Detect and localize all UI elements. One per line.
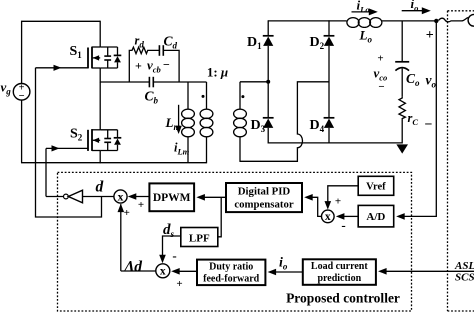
wire Vref to X3 — [328, 186, 358, 203]
ground arrow — [396, 144, 408, 153]
svg-text:D1: D1 — [247, 35, 262, 51]
node output junction — [434, 19, 438, 23]
svg-text:+: + — [135, 59, 142, 73]
svg-text:+: + — [138, 199, 144, 211]
wire ASL input — [384, 270, 474, 272]
capacitor C_b — [148, 77, 150, 88]
transistor S1 — [36, 67, 89, 69]
svg-text:A/D: A/D — [366, 211, 385, 223]
wire v_o sense rail — [404, 21, 436, 217]
svg-text:-: - — [341, 218, 345, 233]
svg-text:io: io — [279, 256, 288, 272]
svg-text:SCS: SCS — [455, 272, 474, 284]
wire delta-d — [121, 270, 156, 272]
svg-text:S1: S1 — [70, 44, 83, 60]
svg-text:compensator: compensator — [234, 199, 294, 211]
gate U2 inverter — [46, 196, 64, 198]
svg-text:-: - — [172, 248, 176, 263]
wire output top rail — [268, 20, 346, 22]
svg-text:−: − — [425, 118, 433, 133]
wire midpoint rail — [100, 81, 149, 83]
source v_g — [13, 84, 30, 101]
wire v_g to S1 drain top rail — [22, 21, 101, 83]
svg-text:+: + — [426, 28, 434, 43]
svg-text:+: + — [124, 207, 130, 219]
svg-text:feed-forward: feed-forward — [203, 274, 260, 285]
svg-text:Cb: Cb — [145, 89, 159, 106]
transformer secondary — [239, 82, 241, 110]
svg-text:D2: D2 — [310, 35, 325, 51]
diode D2 — [324, 35, 335, 37]
svg-text:−: − — [163, 58, 170, 72]
svg-text:D3: D3 — [251, 118, 266, 134]
summer X3 error — [322, 210, 335, 223]
svg-text:Duty ratio: Duty ratio — [209, 262, 253, 273]
load current source — [468, 14, 474, 26]
inductor L_o — [347, 18, 359, 28]
wire S1 gate drive — [36, 68, 102, 217]
label i_o arrow — [402, 10, 424, 12]
svg-text:Lo: Lo — [359, 28, 373, 45]
transformer primary — [206, 82, 208, 110]
block Vref — [358, 176, 394, 195]
svg-text:Proposed controller: Proposed controller — [286, 291, 400, 306]
wire AD to X3 — [344, 215, 359, 217]
svg-text:rd: rd — [135, 34, 145, 50]
block duty ratio feed-forward — [197, 260, 265, 286]
svg-text:Digital PID: Digital PID — [238, 186, 291, 198]
node secondary-bridge junction — [266, 80, 270, 84]
svg-text:x: x — [325, 211, 331, 223]
diode D3 — [263, 117, 274, 119]
resistor r_C — [399, 97, 405, 144]
svg-text:iLo: iLo — [357, 0, 370, 14]
svg-text:Co: Co — [406, 71, 420, 88]
wire d — [83, 196, 114, 198]
svg-text:−: − — [378, 81, 384, 93]
svg-text:ASL: ASL — [454, 260, 474, 272]
transistor S2 — [46, 147, 88, 149]
inductor L_m — [187, 82, 189, 110]
svg-text:+: + — [377, 53, 383, 65]
block LPF — [181, 228, 218, 247]
svg-text:Δd: Δd — [124, 259, 143, 276]
wire load-pred to duty-ff — [274, 271, 303, 273]
block Digital PID compensator — [226, 183, 302, 212]
wire LPF to X2 — [163, 236, 181, 256]
svg-text:rC: rC — [408, 111, 419, 127]
wire bridge right leg — [328, 20, 330, 36]
svg-text:LPF: LPF — [189, 233, 210, 245]
capacitor S2 snubber cap — [100, 129, 117, 131]
svg-text:io: io — [411, 0, 419, 13]
svg-text:vcb: vcb — [147, 58, 161, 75]
summer X1 duty multiplier — [114, 190, 127, 203]
wire v_g bottom — [21, 100, 23, 163]
diode D1 — [263, 35, 274, 37]
svg-text:prediction: prediction — [317, 273, 361, 284]
controller dashed box — [58, 172, 412, 311]
block load current prediction — [303, 259, 376, 285]
svg-text:x: x — [160, 266, 166, 278]
svg-text:d: d — [96, 179, 104, 196]
svg-text:vg: vg — [1, 80, 12, 97]
svg-text:DPWM: DPWM — [153, 192, 191, 204]
label i_Lo arrow — [352, 11, 372, 13]
capacitor C_o — [401, 21, 403, 62]
summer X2 delta-d — [156, 264, 170, 278]
wire X3 to PID — [312, 197, 322, 216]
block DPWM — [149, 183, 194, 211]
diode S2 body diode — [117, 130, 119, 138]
svg-text:1: μ: 1: μ — [207, 65, 228, 80]
resistor r_d — [129, 47, 159, 82]
capacitor C_d — [158, 45, 160, 56]
wire bottom output rail — [268, 142, 402, 144]
svg-text:Load current: Load current — [311, 261, 368, 272]
wire vo sense to AD arrow — [396, 213, 405, 220]
svg-text:x: x — [118, 191, 124, 203]
wire secondary top — [240, 81, 268, 83]
diode S1 body diode — [117, 47, 119, 55]
wire bridge left leg — [267, 20, 269, 36]
capacitor S1 snubber cap — [100, 46, 117, 48]
svg-text:+: + — [335, 196, 341, 208]
svg-text:vco: vco — [374, 66, 388, 83]
block A/D — [358, 205, 394, 227]
svg-text:S2: S2 — [70, 127, 83, 143]
svg-text:Vref: Vref — [366, 182, 386, 193]
svg-text:D4: D4 — [310, 118, 325, 134]
load dashed box — [448, 11, 474, 311]
wire PID to DPWM — [204, 196, 226, 198]
wire DPWM to X1 — [133, 196, 149, 198]
svg-text:Cd: Cd — [164, 34, 178, 51]
wire secondary return with hop — [240, 82, 329, 162]
wire duty-ff to X2 — [178, 270, 197, 272]
svg-text:vo: vo — [426, 73, 437, 90]
wire S2 gate drive — [45, 148, 47, 196]
wire bottom rail — [21, 162, 207, 164]
wire delta-d to X1 — [120, 204, 122, 271]
wire load squiggle — [439, 18, 469, 22]
svg-text:+: + — [176, 278, 182, 290]
svg-text:iLm: iLm — [174, 141, 190, 157]
wire d_s tap — [218, 197, 221, 237]
diode D4 — [324, 117, 335, 119]
